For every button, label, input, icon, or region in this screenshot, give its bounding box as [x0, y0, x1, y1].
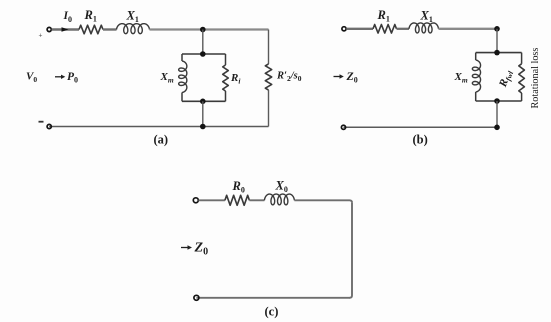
inductor Xm (circuit a) — [179, 61, 187, 93]
svg-text:(a): (a) — [154, 133, 169, 147]
junction node box bottom (a) — [200, 99, 206, 105]
terminal bottom-left (circuit c) — [194, 295, 199, 300]
wire terminal to R1 with I0 arrow — [52, 28, 79, 30]
wire terminal to R0 — [199, 199, 225, 201]
junction node box bottom (b) — [494, 98, 500, 104]
wire R1 to X1 (b) — [397, 28, 410, 30]
current arrow I0 — [62, 27, 69, 31]
wire right branch bottom lead (a) — [268, 90, 270, 127]
terminal top-left (circuit c) — [193, 198, 198, 203]
wire box right lead top (b) — [521, 53, 523, 64]
wire X1 to right corner — [150, 28, 269, 30]
wire box left lead top (b) — [475, 53, 477, 60]
wire X0 to right corner (c) — [294, 200, 352, 202]
junction node box top (b) — [494, 50, 500, 56]
inductor Xm (circuit b) — [472, 60, 480, 92]
terminal bottom-left (circuit b) — [341, 125, 345, 129]
wire junction down to box (b) — [496, 29, 498, 53]
bottom rail (a) — [49, 126, 268, 128]
wire right side (c) — [350, 203, 352, 298]
wire R0 to X0 — [249, 199, 264, 201]
junction node box top (a) — [200, 51, 206, 57]
svg-text:Rotational loss: Rotational loss — [530, 48, 541, 109]
wire box right lead bottom — [225, 91, 227, 101]
resistor R'2/s0 (circuit a) — [265, 64, 271, 90]
bottom rail (b) — [344, 126, 498, 128]
wire top of parallel box (b) — [476, 52, 522, 54]
junction node bottom rail (b) — [494, 125, 500, 131]
junction node top (b) — [494, 26, 500, 32]
wire bottom of parallel box (a) — [182, 100, 226, 102]
terminal top-left (circuit b) — [342, 27, 346, 31]
junction node top (a) — [200, 27, 206, 33]
arrow to P0 — [55, 76, 62, 78]
terminal - (bottom-left, circuit a) — [47, 124, 51, 128]
svg-text:+: + — [39, 32, 43, 40]
inductor X1 (circuit b) — [409, 23, 439, 33]
wire R1 to X1 — [103, 28, 117, 30]
junction node bottom rail (a) — [200, 124, 206, 130]
bottom rail (c) — [196, 297, 350, 299]
wire box bottom to bottom rail — [202, 101, 204, 126]
resistor R1 (circuit a) — [79, 25, 103, 34]
resistor Rfwl rotational-loss (circuit b) — [519, 64, 525, 93]
wire box bottom to bottom rail (b) — [496, 101, 498, 127]
resistor Ri (circuit a) — [223, 65, 229, 91]
wire top of parallel box (a) — [182, 53, 226, 55]
terminal + (top-left, circuit a) — [47, 27, 51, 31]
wire bottom of parallel box (b) — [476, 100, 522, 102]
wire box left lead bottom — [181, 93, 183, 102]
svg-text:(b): (b) — [413, 133, 428, 147]
resistor R0 (circuit c) — [225, 195, 250, 205]
wire box right lead bottom (b) — [521, 93, 523, 101]
minus sign label — [39, 121, 44, 123]
wire junction down to magnetizing branch — [202, 30, 204, 55]
wire terminal to R1 (b) — [346, 28, 373, 30]
wire box left lead top — [181, 54, 183, 61]
inductor X0 (circuit c) — [264, 194, 294, 205]
svg-text:(c): (c) — [265, 305, 279, 319]
arrow to Z0 (c) — [181, 247, 189, 249]
arrow to Z0 (b) — [334, 76, 341, 78]
wire box right lead top — [225, 54, 227, 65]
wire X1 to junction (b) — [439, 28, 498, 30]
resistor R1 (circuit b) — [373, 25, 397, 34]
wire right branch top lead (a) — [268, 30, 270, 65]
inductor X1 (circuit a) — [117, 24, 150, 34]
wire box left lead bottom (b) — [475, 92, 477, 101]
